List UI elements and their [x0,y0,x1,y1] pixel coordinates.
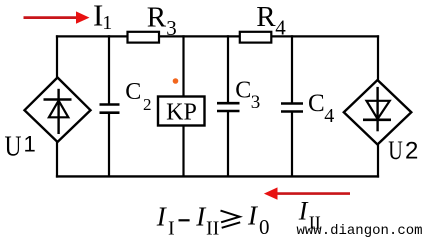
svg-text:R: R [147,2,167,34]
svg-text:C: C [235,78,251,104]
wire C3 branch upper [227,35,229,103]
wire KP branch upper [182,35,184,97]
wire right rail upper [377,35,379,81]
label I_II [298,196,321,232]
svg-text:U: U [388,135,403,165]
wire C4 branch lower [291,112,293,178]
U2 diode (pointing down) [363,87,391,131]
svg-text:C: C [308,90,325,117]
current arrow I_II (red, pointing left) [264,187,350,199]
orange dot node [173,78,179,84]
controlled source U2 diamond [344,80,412,145]
svg-text:1: 1 [102,12,112,34]
label C2 [125,79,151,114]
svg-text:I: I [168,218,175,240]
capacitor C3 [217,103,240,111]
wire bottom bus [56,175,379,177]
label U2 [388,135,418,165]
wire C4 branch upper [291,35,293,103]
label R4 [256,1,286,39]
controlled source U1 diamond [25,78,91,143]
formula I_I - I_II >= I_0 [156,200,270,239]
svg-text:U: U [5,131,22,163]
wire right rail lower [377,144,379,178]
capacitor C2 [100,105,120,113]
label I1 [93,0,112,34]
wire C3 branch lower [227,111,229,177]
resistor R4 [240,32,271,43]
svg-text:I: I [298,196,309,225]
svg-text:0: 0 [259,215,270,239]
wire left rail upper [56,35,58,78]
wire left rail lower [56,141,58,178]
svg-text:www.diangon.com: www.diangon.com [297,223,423,239]
svg-text:KP: KP [166,99,197,125]
wire C2 branch upper [108,35,110,104]
svg-text:4: 4 [324,105,334,127]
svg-text:2: 2 [405,137,418,164]
label C4 [308,90,334,127]
wire KP branch lower [182,125,184,177]
>= symbol drawn [221,211,241,228]
svg-text:C: C [125,79,141,105]
svg-text:2: 2 [143,95,152,114]
resistor R3 [128,32,160,43]
label C3 [235,78,260,113]
label U1 [5,131,36,163]
wire C2 branch lower [108,113,110,177]
svg-text:II: II [206,218,219,240]
U1 diode (pointing up) [44,89,72,134]
wire top bus [56,35,379,37]
svg-text:3: 3 [166,16,177,40]
svg-text:1: 1 [24,132,36,157]
svg-text:R: R [256,1,276,33]
capacitor C4 [281,104,303,112]
label R3 [147,2,177,40]
block KP [158,97,205,126]
current arrow I1 (red, pointing right) [24,11,90,23]
svg-text:4: 4 [275,15,286,39]
svg-text:3: 3 [251,92,261,113]
